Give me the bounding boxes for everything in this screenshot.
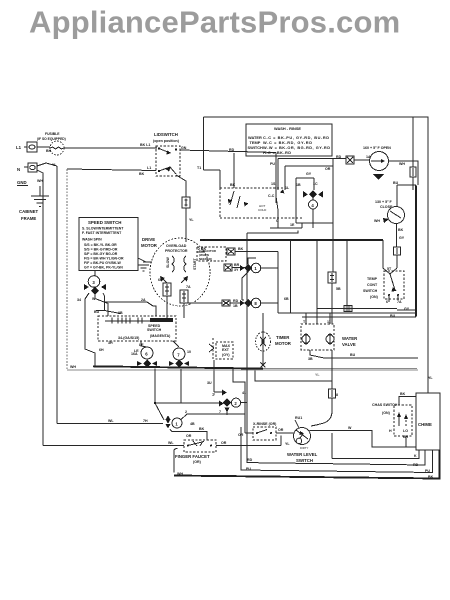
svg-text:SWITCH: SWITCH (248, 145, 264, 150)
wire x317 drop (316, 241, 318, 324)
svg-text:L1: L1 (147, 166, 151, 170)
svg-text:YL: YL (285, 442, 290, 446)
wire y233 (247, 231, 298, 234)
svg-text:C-C: C-C (268, 194, 275, 198)
svg-text:RU1: RU1 (295, 416, 302, 420)
svg-text:DRIVE: DRIVE (142, 237, 155, 242)
svg-text:SPEED SWITCH: SPEED SWITCH (88, 220, 121, 225)
speed switch legend box (79, 218, 138, 271)
water valve bottom exit (310, 350, 418, 358)
svg-text:H: H (389, 429, 392, 433)
water temp switch dashed box (220, 188, 302, 218)
circle 1 connector + loop (57, 423, 163, 425)
svg-text:8: 8 (336, 393, 338, 397)
wire WH drop from N (37, 170, 43, 446)
svg-text:GY: GY (399, 236, 405, 240)
motor windings (172, 256, 186, 272)
svg-text:COLD: COLD (258, 208, 267, 212)
svg-text:3Y: 3Y (234, 268, 239, 272)
capacitor dashed box (197, 247, 226, 261)
wire riser x181 (180, 369, 182, 403)
chime pins and bottom buses (332, 450, 419, 459)
svg-text:EXT: EXT (222, 348, 230, 352)
svg-text:BU: BU (94, 310, 100, 314)
svg-text:TEMP: TEMP (367, 277, 378, 281)
svg-text:S/S = BK-GY/RD-OR: S/S = BK-GY/RD-OR (84, 248, 118, 252)
svg-text:L1: L1 (16, 145, 22, 150)
speed switch dashed box (98, 316, 176, 341)
svg-text:SWITCH: SWITCH (363, 289, 378, 293)
svg-text:7A: 7A (397, 300, 402, 304)
svg-text:OR: OR (221, 441, 227, 445)
svg-text:1B: 1B (296, 183, 301, 187)
svg-text:6: 6 (386, 300, 388, 304)
motor right connections (197, 251, 205, 253)
svg-text:BU: BU (350, 353, 356, 357)
svg-text:PU: PU (270, 162, 275, 166)
svg-text:3B: 3B (308, 357, 313, 361)
chime box (416, 393, 440, 450)
svg-text:RD: RD (336, 155, 342, 159)
svg-text:BK: BK (46, 149, 52, 153)
svg-text:YL: YL (315, 373, 320, 377)
wire y228 (270, 223, 302, 228)
svg-text:MOTOR: MOTOR (275, 341, 292, 346)
wire PU drop x276 (275, 153, 277, 204)
svg-text:6B: 6B (284, 297, 289, 301)
svg-text:YL: YL (189, 218, 194, 222)
timer motor (256, 332, 271, 351)
svg-text:N: N (17, 167, 20, 172)
svg-text:GY: GY (306, 172, 312, 176)
svg-text:H-C = BK-RD: H-C = BK-RD (263, 150, 291, 155)
svg-text:GN: GN (181, 146, 187, 150)
svg-text:6B: 6B (158, 278, 163, 282)
svg-text:3U: 3U (207, 381, 212, 385)
svg-text:WASH - RINSE: WASH - RINSE (274, 126, 301, 131)
connector group: box-diamond-circle 8 (222, 300, 230, 306)
x332 long vertical with components (332, 223, 334, 272)
svg-text:(MAGENTA): (MAGENTA) (150, 334, 171, 338)
svg-text:RD: RD (233, 299, 239, 303)
motor internal ground (138, 262, 152, 271)
svg-text:34-(GA/S/15): 34-(GA/S/15) (118, 336, 140, 340)
svg-text:BK: BK (400, 392, 406, 396)
wire T1 riser (204, 151, 221, 188)
svg-text:S/S = BK-YL BK-GR: S/S = BK-YL BK-GR (84, 243, 117, 247)
svg-text:WATER: WATER (342, 336, 358, 341)
svg-text:AppliancePartsPros.com: AppliancePartsPros.com (29, 5, 400, 40)
wire L1 to fuse (24, 146, 50, 148)
svg-text:RD: RD (229, 148, 235, 152)
finger faucet (43, 436, 281, 446)
svg-text:SLOW: SLOW (166, 257, 170, 268)
svg-text:4B: 4B (190, 422, 195, 426)
svg-text:F/F = BK-PU GY/BK-W: F/F = BK-PU GY/BK-W (84, 261, 122, 265)
svg-text:RD: RD (247, 458, 253, 462)
svg-text:2A: 2A (141, 298, 146, 302)
svg-text:10: 10 (187, 350, 191, 354)
svg-text:F. FAST INTERMITTENT: F. FAST INTERMITTENT (82, 231, 122, 235)
drive motor dashed circle (150, 238, 210, 306)
arrow down (heater) (373, 174, 384, 180)
main bus y240 (200, 239, 383, 241)
svg-text:2 BK: 2 BK (198, 247, 207, 251)
svg-text:PROTECTOR: PROTECTOR (165, 249, 188, 253)
svg-text:YL: YL (428, 376, 433, 380)
svg-text:FUSIBLE: FUSIBLE (45, 132, 60, 136)
wire stubs circles to x278 (261, 268, 278, 303)
wire thermostat to right (389, 161, 419, 185)
svg-text:34: 34 (77, 298, 81, 302)
inner right box (397, 185, 416, 310)
svg-text:WL: WL (108, 419, 114, 423)
fuse F1 (dashed circle) (50, 141, 64, 155)
svg-text:SWITCH: SWITCH (147, 328, 162, 332)
svg-text:GY = GY-BK, PK-YL/GN: GY = GY-BK, PK-YL/GN (84, 266, 123, 270)
svg-text:W: W (92, 297, 96, 301)
outer box top right (204, 117, 429, 393)
svg-text:5B: 5B (336, 287, 341, 291)
svg-text:NEEDED): NEEDED) (199, 257, 212, 261)
svg-text:RD: RD (413, 463, 419, 467)
circle 7 (173, 348, 185, 360)
svg-text:BK: BK (230, 183, 236, 187)
connector P1 (L1 terminal) (27, 142, 37, 152)
svg-text:WH: WH (70, 365, 76, 369)
wire RD drop x234 (233, 153, 235, 188)
svg-text:CABINET: CABINET (19, 209, 38, 214)
svg-text:LIDSWITCH: LIDSWITCH (154, 132, 178, 137)
wire YL drop from lid switch to motor (176, 175, 186, 197)
svg-text:K: K (414, 454, 417, 458)
drop from bus x156 (155, 369, 219, 421)
svg-text:7: 7 (212, 393, 214, 397)
svg-text:CONT: CONT (367, 283, 378, 287)
svg-text:(OR): (OR) (193, 460, 202, 464)
right mid horizontals (317, 308, 397, 310)
svg-text:FINGER FAUCET: FINGER FAUCET (175, 454, 210, 459)
svg-text:OVERLOAD: OVERLOAD (166, 244, 187, 248)
svg-text:(open position): (open position) (153, 139, 180, 143)
svg-text:(ON): (ON) (370, 295, 379, 299)
connector P2 (N terminal) (28, 163, 37, 172)
water valve dashed box (301, 324, 334, 350)
svg-text:CHIME: CHIME (418, 422, 432, 427)
svg-text:BK: BK (238, 247, 244, 251)
svg-text:WH: WH (37, 179, 43, 183)
svg-text:7A: 7A (186, 285, 191, 289)
svg-text:FRAME: FRAME (21, 216, 36, 221)
main bus y366 (93, 366, 263, 368)
svg-text:OR: OR (278, 428, 284, 432)
svg-text:WASH SPIN: WASH SPIN (82, 238, 102, 242)
svg-text:(IF SO EQUIPPED): (IF SO EQUIPPED) (37, 137, 66, 141)
svg-text:BK: BK (398, 228, 404, 232)
svg-text:OR: OR (325, 167, 331, 171)
svg-text:BR: BR (234, 263, 240, 267)
water level switch (294, 428, 311, 445)
circle 3 connector (94, 271, 96, 276)
svg-text:C: C (276, 219, 279, 223)
svg-text:1E: 1E (290, 223, 295, 227)
svg-text:1A: 1A (366, 155, 371, 159)
svg-text:WL: WL (168, 441, 174, 445)
svg-text:BK L1: BK L1 (140, 143, 150, 147)
svg-text:130 + 5° F: 130 + 5° F (375, 200, 393, 204)
svg-text:1C: 1C (313, 182, 318, 186)
wire N switch to YL riser (24, 163, 57, 167)
svg-text:2: 2 (185, 410, 187, 414)
svg-text:BK: BK (428, 475, 434, 479)
svg-text:S/F = BK-GY BG-OR: S/F = BK-GY BG-OR (84, 252, 118, 256)
wire riser x233 to loop (233, 369, 245, 414)
left vertical x69 (66, 169, 68, 370)
svg-text:X-RINSE (OR): X-RINSE (OR) (253, 422, 277, 426)
wire timer motor feed (262, 313, 264, 332)
svg-text:VALVE: VALVE (342, 342, 356, 347)
svg-text:W: W (348, 426, 352, 430)
svg-text:PU: PU (246, 467, 251, 471)
svg-text:BU: BU (393, 181, 399, 185)
svg-text:3H: 3H (108, 341, 113, 345)
svg-text:LO: LO (403, 429, 408, 433)
wire L1 line into lid switch lower (67, 169, 156, 171)
svg-text:6H: 6H (99, 348, 104, 352)
diamond + arrows + circle 4 (309, 191, 317, 199)
svg-text:2B: 2B (118, 311, 123, 315)
fuse component F2 (410, 167, 416, 177)
svg-text:BK: BK (199, 427, 205, 431)
svg-text:PU: PU (425, 469, 430, 473)
wire fuse to lidswitch (64, 147, 157, 149)
svg-text:START: START (193, 257, 197, 270)
svg-text:(OY): (OY) (222, 353, 230, 357)
motor pins to connectors below (166, 282, 168, 284)
svg-text:SWITCH: SWITCH (296, 458, 313, 463)
water temp legend box (246, 124, 332, 156)
svg-text:OR: OR (186, 434, 192, 438)
connector P3 (YL inline) (182, 197, 190, 208)
svg-text:TIMER: TIMER (276, 335, 290, 340)
svg-text:WATER LEVEL: WATER LEVEL (287, 452, 318, 457)
wire x290 drop from bus (290, 240, 292, 313)
wires dashed box to circles 6,7 (141, 341, 179, 347)
svg-text:WH: WH (399, 162, 405, 166)
svg-text:1S: 1S (271, 182, 276, 186)
circle 6 (141, 347, 153, 359)
svg-text:WH: WH (374, 219, 380, 223)
svg-text:1B: 1B (233, 304, 238, 308)
svg-text:BU: BU (390, 314, 396, 318)
wire lid switch top exit to right (180, 150, 276, 153)
connector group: box-diamond-circle 1 (224, 264, 232, 271)
svg-text:7: 7 (219, 410, 221, 414)
svg-text:GY: GY (404, 307, 410, 311)
wire speed box to motor ground (138, 258, 146, 262)
gray wire y369 (67, 369, 418, 371)
wire bus to water level switch top (255, 369, 332, 381)
svg-text:F/S = BK-WH YL/GN-OR: F/S = BK-WH YL/GN-OR (84, 257, 124, 261)
svg-text:S. SLOW/INTERMITTENT: S. SLOW/INTERMITTENT (82, 227, 124, 231)
svg-text:(ON): (ON) (382, 411, 391, 415)
svg-text:LE: LE (134, 349, 139, 353)
svg-text:BK: BK (139, 172, 145, 176)
svg-text:DIRTY: DIRTY (300, 446, 308, 450)
wire x347 drop from bus (346, 241, 348, 305)
component (motor protector) on x397 (394, 247, 401, 255)
wire YL vertical to bottom (56, 166, 58, 424)
svg-text:T1: T1 (197, 166, 201, 170)
wire hook x174 to bottom bus (174, 449, 178, 473)
wire vertical x413 (412, 117, 414, 190)
svg-text:WH: WH (177, 472, 183, 476)
svg-text:7H: 7H (143, 419, 148, 423)
svg-text:MOTOR: MOTOR (141, 243, 158, 248)
circle 2 connector (219, 401, 224, 407)
svg-text:GND: GND (17, 180, 27, 185)
loop rect (temp switch wiring) (285, 158, 333, 223)
svg-text:160 + 5° F OPEN: 160 + 5° F OPEN (363, 146, 391, 150)
max ext dashed switch (216, 342, 233, 359)
